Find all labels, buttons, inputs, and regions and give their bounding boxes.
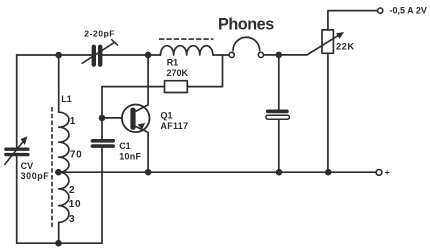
L1 core dashed line <box>51 108 53 229</box>
node phones-cap/mid rail junction <box>276 169 283 176</box>
phones coil core dashed line <box>160 38 213 40</box>
svg-text:10nF: 10nF <box>119 152 141 162</box>
wire top rail (left section) <box>17 54 92 56</box>
wire coil to jack <box>213 54 229 56</box>
svg-text:22K: 22K <box>336 42 355 53</box>
svg-text:270K: 270K <box>167 68 189 78</box>
svg-text:3: 3 <box>69 214 75 225</box>
node A junction collector/top rail <box>145 52 152 59</box>
wire R1 left lead and C1 top lead <box>102 87 164 139</box>
potentiometer 22K body <box>322 30 333 53</box>
svg-text:L1: L1 <box>61 94 72 104</box>
svg-text:-0,5 A 2V: -0,5 A 2V <box>390 5 427 15</box>
wire left vertical branch (antenna/tank left side) <box>16 55 18 243</box>
phones plug arc <box>233 37 260 50</box>
svg-text:300pF: 300pF <box>21 171 50 181</box>
terminal positive circle <box>376 170 382 176</box>
potentiometer 22K wiper arrow <box>307 32 344 55</box>
node junction L1 top <box>55 52 62 59</box>
wire pot bottom lead <box>327 53 329 172</box>
node B junction phones-cap/top rail <box>276 52 283 59</box>
transistor Q1 emitter arrow <box>138 123 146 129</box>
svg-text:+: + <box>385 167 390 177</box>
transistor Q1 circle <box>122 105 150 133</box>
node pot/mid rail junction <box>325 169 332 176</box>
svg-text:1: 1 <box>70 116 76 127</box>
inductor L1 winding <box>59 55 69 243</box>
svg-text:2: 2 <box>69 185 75 196</box>
terminal negative circle <box>378 8 383 13</box>
svg-text:Q1: Q1 <box>161 110 173 120</box>
terminal jack circle right <box>258 52 263 57</box>
node C base junction <box>99 115 106 122</box>
svg-text:Phones: Phones <box>218 15 274 33</box>
svg-text:R1: R1 <box>167 57 179 67</box>
wire R1 right lead <box>188 55 223 87</box>
capacitor electrolytic (phones bypass) <box>266 55 290 172</box>
wire top rail (trimmer to phones coil) <box>103 54 161 56</box>
inductor phones coil <box>161 46 213 55</box>
capacitor CV (variable, 300pF) <box>4 136 29 164</box>
wire jack to pot wiper <box>264 54 308 56</box>
node emitter/mid rail junction <box>145 169 152 176</box>
svg-text:C1: C1 <box>119 141 131 151</box>
wire pot top lead to negative terminal <box>328 11 378 30</box>
wire bottom rail <box>17 148 102 243</box>
transistor Q1 base bar <box>130 108 135 130</box>
svg-text:10: 10 <box>69 199 82 210</box>
resistor R1 body <box>165 81 188 93</box>
capacitor trimmer 2-20pF plates <box>82 40 117 67</box>
transistor Q1 collector lead <box>136 55 148 111</box>
svg-text:AF117: AF117 <box>161 121 189 131</box>
svg-text:CV: CV <box>21 161 34 171</box>
wire base lead <box>102 117 131 119</box>
svg-text:70: 70 <box>70 149 83 160</box>
node L1 tap <box>55 169 62 176</box>
wire mid rail (tap to + terminal) <box>58 171 376 173</box>
svg-text:2-20pF: 2-20pF <box>84 29 115 39</box>
node L1 bottom junction <box>55 240 62 247</box>
transistor Q1 emitter lead <box>136 127 148 173</box>
capacitor C1 plates <box>91 139 115 148</box>
terminal jack circle left <box>229 52 234 57</box>
